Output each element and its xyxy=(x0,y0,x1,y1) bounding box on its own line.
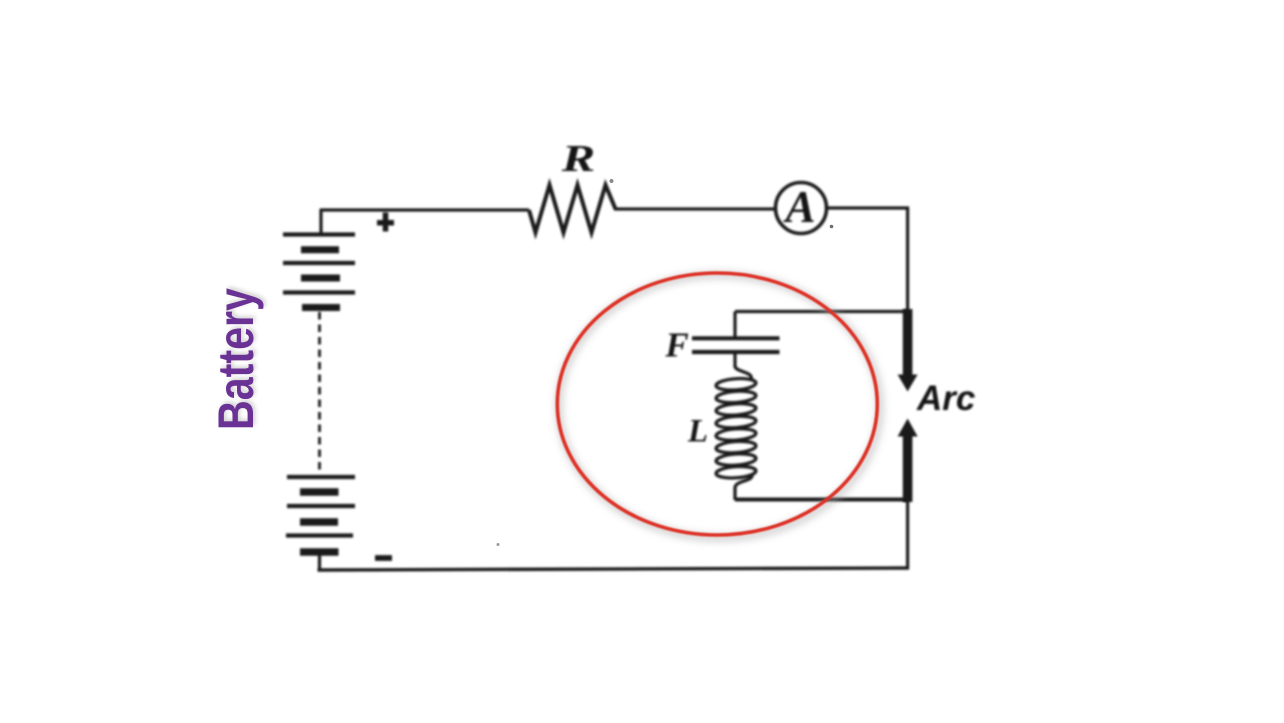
capacitor F top stub wire xyxy=(733,312,736,337)
wire right side below arc to bottom corner xyxy=(906,501,909,569)
red highlight ellipse around LC tank xyxy=(557,273,877,535)
ammeter U1 circle xyxy=(776,183,827,234)
battery cell group bottom: long plates xyxy=(286,477,355,536)
battery top stub xyxy=(319,209,322,234)
battery cell group bottom: short thick plates xyxy=(300,492,339,552)
arc upper electrode (down arrow) xyxy=(898,309,918,392)
battery positive terminal symbol + xyxy=(377,213,394,232)
svg-text:Battery: Battery xyxy=(208,288,264,430)
svg-text:A: A xyxy=(782,182,815,232)
capacitor F plates xyxy=(692,338,780,352)
branch bottom wire xyxy=(735,498,909,502)
wire ammeter to top-right corner and down xyxy=(827,206,908,312)
node top junction / branch top wire xyxy=(735,310,909,313)
speck near ammeter xyxy=(830,225,834,229)
arc lower electrode (up arrow) xyxy=(898,419,918,503)
wire top-left (battery + to resistor) xyxy=(320,208,529,211)
speck on bottom area xyxy=(497,543,500,546)
battery bottom stub xyxy=(318,555,321,571)
battery cell group top: long plates xyxy=(283,235,355,293)
wire resistor to ammeter xyxy=(614,207,776,210)
red highlight ellipse halo shadow xyxy=(559,275,880,538)
battery cell group top: short thick plates xyxy=(301,250,340,308)
bottom wire (return to battery) xyxy=(318,568,910,570)
label Battery (purple, rotated) xyxy=(208,288,264,430)
resistor R xyxy=(529,185,616,233)
capacitor to inductor stub wire xyxy=(733,354,736,367)
battery middle dashed link xyxy=(318,312,321,471)
speck near resistor xyxy=(610,179,614,183)
svg-text:R: R xyxy=(561,137,596,180)
svg-text:L: L xyxy=(687,414,708,450)
svg-text:Arc: Arc xyxy=(916,379,975,418)
battery negative terminal symbol - xyxy=(375,555,392,561)
svg-text:F: F xyxy=(664,326,688,365)
inductor L coil xyxy=(716,366,757,500)
